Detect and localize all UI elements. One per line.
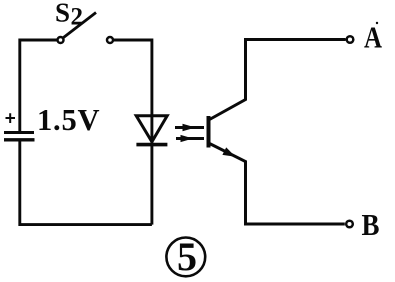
svg-text:1.5V: 1.5V [37, 103, 100, 137]
svg-text:B: B [362, 207, 380, 242]
svg-text:5: 5 [177, 234, 197, 279]
svg-text:S: S [55, 0, 70, 28]
svg-text:A: A [364, 20, 382, 55]
svg-text:2: 2 [71, 4, 84, 31]
